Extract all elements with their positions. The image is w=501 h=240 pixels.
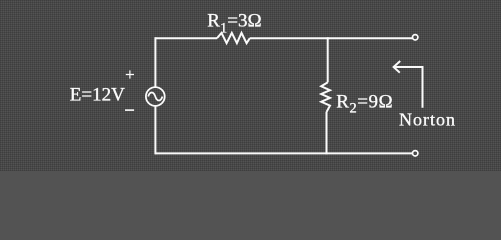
wire top: node A to resistor R1 [155, 37, 217, 39]
Norton arrow pointer [394, 67, 423, 108]
wire bottom [155, 152, 412, 154]
terminal node (bottom, open circle) [413, 151, 418, 156]
polarity plus sign [126, 70, 134, 78]
terminal node (top, open circle) [413, 35, 418, 40]
resistor R2 zigzag [321, 82, 330, 112]
source E sine wave [148, 93, 162, 101]
svg-text:Norton: Norton [399, 110, 456, 130]
wire middle branch lower [326, 112, 328, 154]
svg-text:R2=9Ω: R2=9Ω [336, 91, 393, 116]
wire left upper [154, 37, 156, 87]
svg-text:R1=3Ω: R1=3Ω [207, 11, 261, 37]
source E (AC source circle) [146, 87, 165, 106]
wire middle branch upper [327, 37, 329, 82]
svg-text:E=12V: E=12V [70, 85, 125, 106]
Norton arrowhead [394, 61, 401, 73]
resistor R1 zigzag [217, 33, 250, 43]
wire left lower [154, 106, 156, 154]
polarity minus sign [125, 109, 134, 111]
wire top: resistor R1 to terminal [250, 37, 413, 39]
